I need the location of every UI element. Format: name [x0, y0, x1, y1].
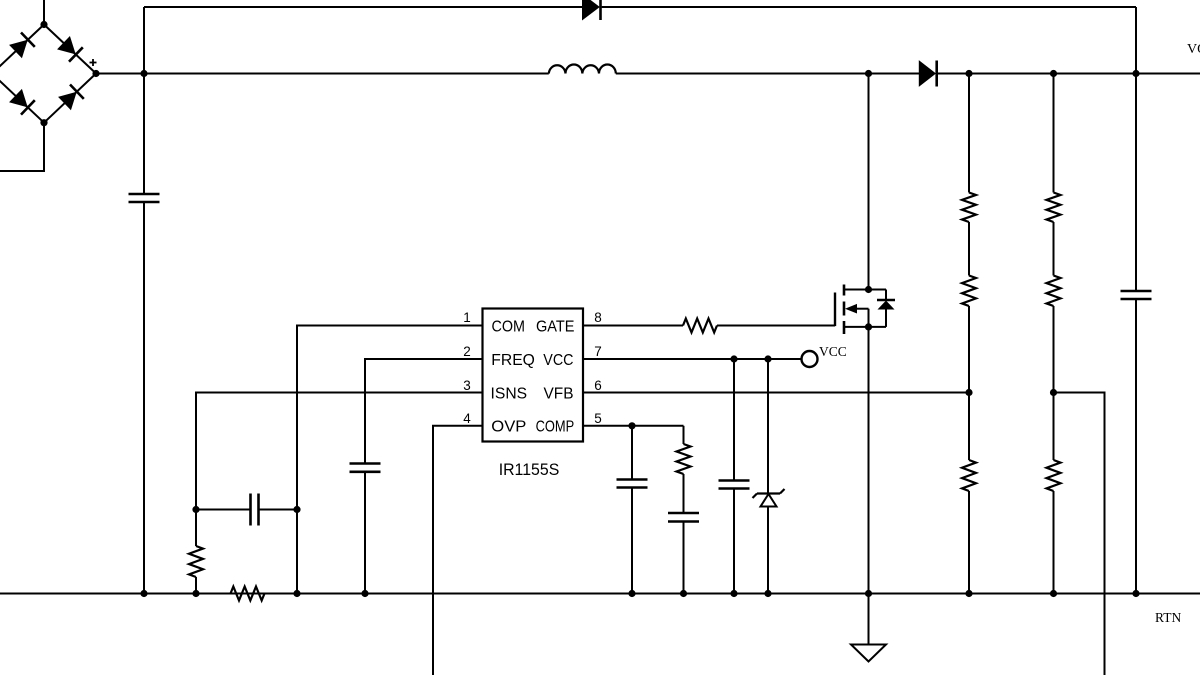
- node: VCC cap junction: [730, 355, 737, 362]
- capacitor C2 FREQ: [350, 462, 381, 465]
- wire: pin4 OVP lead and drop off-sheet: [433, 426, 483, 675]
- wire: R1 to return: [195, 577, 197, 594]
- node: output cap at return: [1132, 590, 1139, 597]
- capacitor C4 COMP: [617, 478, 648, 481]
- svg-text:2: 2: [463, 344, 471, 359]
- capacitor C1 input filter: [129, 193, 160, 196]
- diode D6 boost output diode: [919, 61, 935, 86]
- wire: divider2 top lead: [1053, 74, 1055, 193]
- node: COM/cap junction: [293, 506, 300, 513]
- node: bridge + output junction: [92, 70, 99, 77]
- zener diode Z1 VCC clamp: [757, 492, 780, 494]
- wire: pin3 ISNS lead and drop: [196, 393, 483, 547]
- wire: divider1 to VFB tap: [968, 306, 970, 393]
- svg-text:VFB: VFB: [544, 385, 574, 402]
- wire: pin2 FREQ lead and drop: [365, 359, 483, 464]
- svg-text:IR1155S: IR1155S: [499, 460, 560, 479]
- wire: zener drop: [767, 359, 769, 494]
- wire: return to ground stub: [868, 594, 870, 645]
- node: divider2 at VOUT rail: [1050, 70, 1057, 77]
- resistor R10 divider2 lower: [1047, 460, 1061, 491]
- svg-text:7: 7: [594, 344, 602, 359]
- node: divider1 at return: [965, 590, 972, 597]
- wire: pin5 COMP lead: [583, 425, 684, 427]
- svg-text:8: 8: [594, 310, 602, 325]
- wire: divider2 mid link: [1053, 222, 1055, 276]
- node: input node junction dot: [140, 70, 147, 77]
- svg-text:ISNS: ISNS: [491, 385, 528, 402]
- svg-text:OVP: OVP: [491, 419, 526, 436]
- node: bridge top junction: [40, 21, 47, 28]
- wire: R3 to C5: [683, 474, 685, 513]
- wire: C4 to return: [631, 488, 633, 594]
- node: source at return: [865, 590, 872, 597]
- svg-text:VCC: VCC: [543, 352, 573, 369]
- node: COM at return: [293, 590, 300, 597]
- wire: divider1 top lead: [968, 74, 970, 193]
- node: input cap at return: [140, 590, 147, 597]
- wire: divider1 mid link: [968, 222, 970, 276]
- bridge diode D1 (left node to top node): [10, 41, 27, 58]
- resistor R2 current sense shunt: [231, 587, 265, 601]
- svg-text:GATE: GATE: [536, 318, 575, 335]
- node: drain at main rail: [865, 70, 872, 77]
- transistor Q1 power MOSFET with body diode: [834, 293, 836, 327]
- wire: bypass rail left segment: [144, 6, 583, 8]
- wire: bridge + output to input node: [96, 73, 144, 75]
- bridge diode D4 (bottom node to + node): [59, 93, 76, 110]
- node: C6 at return: [730, 590, 737, 597]
- node: FREQ cap at return: [361, 590, 368, 597]
- wire: main rail input node to inductor: [144, 73, 549, 75]
- svg-text:4: 4: [463, 411, 471, 426]
- wire: output cap lower lead: [1135, 299, 1137, 594]
- node: R1 at return: [192, 590, 199, 597]
- wire: riser from input node up to bypass rail: [143, 7, 145, 74]
- wire: C6 to return: [733, 489, 735, 594]
- node: bridge bottom junction: [40, 119, 47, 126]
- wire: boost diode to right edge (VOUT rail): [937, 73, 1200, 75]
- node: OVP tap junction: [1050, 389, 1057, 396]
- resistor R9 divider2 middle: [1047, 276, 1061, 307]
- bridge diode D3 (left node to bottom node): [10, 90, 27, 107]
- svg-text:6: 6: [594, 378, 602, 393]
- wire: pin7 VCC lead: [583, 358, 802, 360]
- capacitor C5 COMP: [668, 512, 699, 515]
- svg-text:3: 3: [463, 378, 471, 393]
- wire: ISNS filter link: [196, 509, 251, 511]
- wire: ISNS filter link right: [259, 509, 298, 511]
- resistor R6 divider1 middle: [962, 276, 976, 307]
- wire: inductor to boost diode: [616, 73, 920, 75]
- svg-text:COMP: COMP: [536, 419, 575, 436]
- wire: OVP tap to lower resistor: [1053, 393, 1055, 461]
- wire: bypass rail right segment: [602, 6, 1136, 8]
- bridge diode D2 (top node to + node): [58, 37, 75, 54]
- node: output cap at VOUT rail: [1132, 70, 1139, 77]
- node: VFB tap junction: [965, 389, 972, 396]
- resistor R1 ISNS: [189, 546, 203, 577]
- resistor R5 divider1 upper: [962, 193, 976, 223]
- node: divider2 at return: [1050, 590, 1057, 597]
- wire: output cap upper lead: [1135, 74, 1137, 292]
- wire: COMP cap drop: [631, 426, 633, 480]
- wire: divider2 to OVP tap: [1053, 306, 1055, 393]
- node: ISNS/filter junction: [192, 506, 199, 513]
- resistor R8 divider2 upper: [1047, 193, 1061, 223]
- wire: divider2 bottom lead: [1053, 491, 1055, 594]
- wire: AC input lead to bridge top node: [43, 0, 45, 25]
- resistor R4 gate: [683, 319, 717, 333]
- wire: COMP RC drop: [683, 426, 685, 444]
- capacitor C6 VCC: [719, 479, 750, 482]
- node: C5 at return: [680, 590, 687, 597]
- wire: gate resistor to MOSFET gate: [717, 325, 835, 327]
- wire: bottom return rail: [0, 593, 1200, 595]
- wire: divider1 bottom lead: [968, 491, 970, 594]
- inductor L1 (boost choke): [549, 64, 616, 73]
- resistor R7 divider1 lower: [962, 460, 976, 491]
- svg-text:5: 5: [594, 411, 602, 426]
- wire: bridge negative lead down and left off-sheet: [0, 123, 44, 171]
- svg-text:1: 1: [463, 310, 471, 325]
- svg-text:VCC: VCC: [819, 344, 847, 359]
- node: C4 at return: [628, 590, 635, 597]
- node: VCC zener junction: [764, 355, 771, 362]
- svg-text:VOUT: VOUT: [1187, 42, 1200, 57]
- wire: Q1 drain to main rail: [868, 74, 870, 290]
- terminal: VCC supply circle: [802, 351, 818, 367]
- wire: VCC cap drop: [733, 359, 735, 481]
- wire: C5 to return: [683, 522, 685, 594]
- wire: OVP sense tap right and down off-sheet: [1054, 393, 1105, 675]
- wire: input cap lower lead to return: [143, 202, 145, 594]
- node: Z1 at return: [764, 590, 771, 597]
- svg-text:RTN: RTN: [1155, 610, 1181, 625]
- svg-text:COM: COM: [492, 318, 526, 335]
- capacitor C7 output bulk: [1121, 290, 1152, 293]
- diode D5 bypass (anode left, cathode right): [583, 0, 600, 20]
- resistor R3 COMP: [677, 444, 691, 474]
- wire: zener to return: [767, 507, 769, 594]
- wire: pin8 GATE lead left segment: [583, 325, 683, 327]
- wire: VFB tap to lower resistor: [968, 393, 970, 461]
- wire: pin6 VFB lead to divider tap: [583, 392, 969, 394]
- wire: pin1 COM lead and drop: [297, 326, 483, 594]
- ground symbol: [851, 645, 886, 662]
- wire: Q1 source to return: [868, 327, 870, 594]
- wire: bypass rail drop to output node: [1135, 7, 1137, 74]
- label: + polarity mark: [90, 62, 97, 64]
- bridge rectifier BR1 (diamond arms): [0, 25, 44, 74]
- svg-text:FREQ: FREQ: [491, 352, 535, 369]
- op-amp/controller U1 IR1155S body: [483, 309, 584, 442]
- wire: input cap upper lead: [143, 74, 145, 195]
- capacitor C3 ISNS filter: [249, 494, 252, 526]
- node: COMP branch junction: [628, 422, 635, 429]
- wire: FREQ cap to return: [364, 472, 366, 594]
- node: divider1 at VOUT rail: [965, 70, 972, 77]
